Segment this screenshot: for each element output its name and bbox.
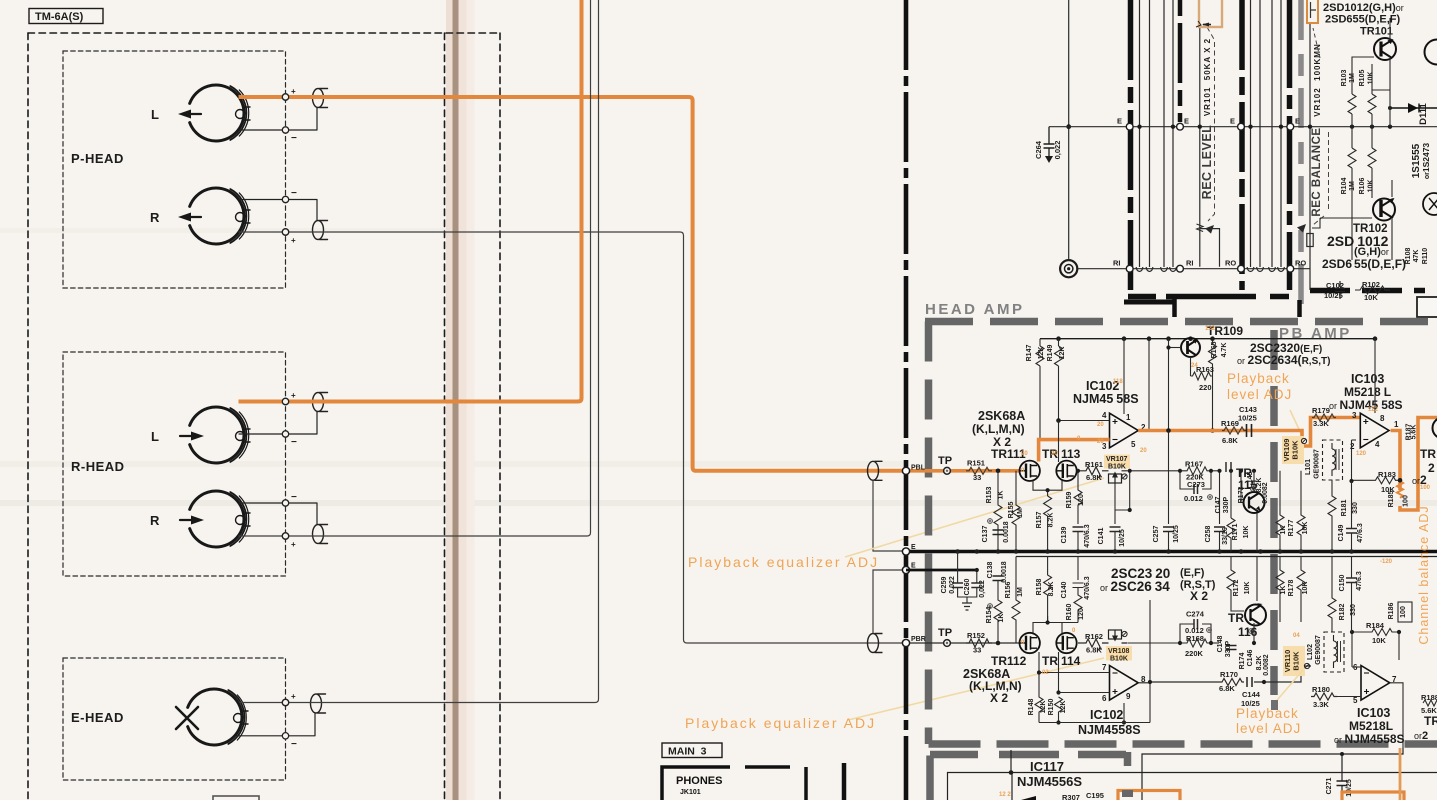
svg-text:R153: R153 [986, 487, 993, 504]
R157 [1044, 496, 1052, 552]
svg-text:R105: R105 [1359, 70, 1366, 87]
lower channel mirror: R172/R178 verticals [1227, 557, 1305, 623]
svg-text:JK101: JK101 [680, 789, 701, 796]
svg-text:R152: R152 [967, 631, 985, 640]
svg-text:10K: 10K [1372, 636, 1386, 645]
svg-text:C149: C149 [1338, 525, 1345, 542]
svg-text:GE90087: GE90087 [1315, 635, 1322, 665]
svg-text:47/6.3: 47/6.3 [1357, 523, 1364, 543]
C137 cap on R153 branch [993, 530, 1004, 535]
MAIN 3 label box [662, 743, 722, 758]
svg-text:TP: TP [938, 627, 952, 639]
svg-text:47/6.3: 47/6.3 [1356, 571, 1363, 591]
arrow L (P-HEAD) [190, 113, 201, 115]
svg-text:TR113: TR113 [1042, 447, 1081, 461]
svg-text:R102: R102 [1362, 280, 1380, 289]
svg-text:PHONES: PHONES [676, 775, 722, 787]
VR107 highlight label [1104, 455, 1130, 469]
svg-text:M5218L: M5218L [1344, 385, 1391, 399]
svg-text:R181: R181 [1341, 500, 1348, 517]
svg-text:1: 1 [1394, 420, 1399, 429]
svg-text:10K: 10K [1302, 522, 1309, 535]
svg-text:12K: 12K [1059, 347, 1066, 360]
svg-text:M5218L: M5218L [1349, 719, 1393, 733]
leader line playback equalizer ADJ upper [845, 478, 1104, 557]
svg-text:118: 118 [1113, 379, 1123, 385]
svg-text:2: 2 [1350, 442, 1355, 451]
svg-text:E: E [1184, 117, 1189, 126]
svg-text:2SD655(D,E,F): 2SD655(D,E,F) [1325, 14, 1401, 26]
svg-text:E: E [1117, 117, 1122, 126]
TM-6A(S) title box [29, 9, 103, 24]
shield ellipse at PBL amp entry [868, 461, 883, 480]
svg-text:R155: R155 [1008, 502, 1015, 519]
svg-text:1M: 1M [1017, 508, 1024, 518]
svg-text:Playback equalizer ADJ: Playback equalizer ADJ [688, 554, 879, 570]
svg-text:100: 100 [1400, 606, 1407, 618]
arrow R (P-HEAD) [190, 216, 201, 218]
R151 resistor [966, 467, 992, 474]
svg-text:L102: L102 [1307, 644, 1314, 660]
svg-text:C137: C137 [982, 526, 989, 543]
svg-text:0.0018: 0.0018 [1003, 521, 1010, 543]
shield tail PBR to E terminal [873, 570, 903, 633]
svg-text:E-HEAD: E-HEAD [71, 710, 124, 725]
bus stub above E terminal x1180 [1178, 0, 1183, 122]
svg-text:120: 120 [1356, 451, 1367, 457]
svg-text:1K: 1K [1280, 526, 1287, 535]
svg-text:VR101 50KA X 2: VR101 50KA X 2 [1203, 38, 1212, 116]
svg-text:100: 100 [1420, 485, 1431, 491]
output ch2 [1138, 682, 1150, 684]
svg-text:12 2: 12 2 [999, 792, 1011, 798]
svg-text:R163: R163 [1196, 365, 1214, 374]
svg-text:R110: R110 [1422, 248, 1429, 264]
svg-text:R171: R171 [1232, 524, 1239, 541]
svg-text:R185: R185 [1388, 491, 1395, 508]
svg-text:3: 3 [1352, 411, 1357, 420]
D111 diode [1390, 103, 1437, 113]
transistor at right edge (partial) [1425, 40, 1437, 65]
svg-text:RO: RO [1295, 259, 1306, 268]
svg-text:122: 122 [1368, 407, 1379, 413]
svg-text:0.0082: 0.0082 [1262, 482, 1269, 504]
transistor TR115 [1244, 492, 1265, 513]
svg-text:R178: R178 [1288, 580, 1295, 597]
svg-text:C271: C271 [1326, 778, 1333, 795]
svg-text:C145: C145 [1247, 472, 1254, 489]
svg-text:X 2: X 2 [990, 691, 1008, 705]
svg-text:B10K: B10K [1110, 656, 1128, 663]
svg-text:33/16: 33/16 [1222, 527, 1229, 545]
svg-text:R307: R307 [1062, 793, 1080, 800]
svg-text:Playback: Playback [1227, 371, 1290, 386]
svg-text:R161: R161 [1085, 460, 1103, 469]
drain lead TR111 up / TR113 up [1058, 421, 1060, 463]
svg-text:RI: RI [1186, 259, 1194, 268]
wire to R168 ch2 [1128, 642, 1180, 644]
svg-text:B10K: B10K [1292, 651, 1301, 671]
node at R153 [996, 469, 1001, 474]
svg-text:12K: 12K [1040, 701, 1047, 714]
section border bottom of REC area [1128, 294, 1289, 300]
svg-text:9: 9 [1126, 692, 1131, 701]
leader line playback equalizer ADJ lower [848, 658, 1104, 720]
head amp bottom border [929, 740, 1437, 748]
svg-text:12K: 12K [1038, 347, 1045, 360]
R155 1M vertical [1012, 471, 1020, 552]
svg-text:1M: 1M [1349, 73, 1356, 83]
connector circle with cross [1423, 193, 1437, 215]
X mark on erase head [176, 707, 198, 729]
white label box top right corner [1417, 297, 1437, 317]
head amp top border (grey dashed) [925, 318, 1437, 326]
svg-text:10K: 10K [1368, 72, 1375, 85]
svg-text:10/25: 10/25 [1238, 414, 1257, 423]
shield ellipse at PBR amp entry [868, 634, 883, 653]
svg-text:5: 5 [1131, 440, 1136, 449]
svg-text:0.022: 0.022 [949, 576, 956, 594]
svg-text:1M: 1M [1017, 587, 1024, 597]
svg-text:33: 33 [973, 646, 981, 655]
svg-text:R183: R183 [1378, 470, 1396, 479]
svg-text:Channel balance ADJ: Channel balance ADJ [1417, 505, 1431, 644]
source leads down joined [1033, 481, 1062, 497]
svg-text:D111: D111 [1418, 102, 1429, 124]
svg-text:R167: R167 [1185, 460, 1203, 469]
svg-text:R177: R177 [1288, 520, 1295, 537]
RI/RO rail [1077, 268, 1310, 270]
svg-text:or NJM4558S: or NJM4558S [1329, 398, 1403, 412]
svg-text:IC103: IC103 [1351, 372, 1384, 386]
svg-text:TR: TR [1424, 714, 1437, 728]
wire ERASE grey: E-head up to top edge [240, 0, 599, 703]
grey bar GB1 [1298, 0, 1304, 318]
PB AMP mid border GB2 [1270, 330, 1278, 695]
svg-text:R104: R104 [1341, 178, 1348, 195]
svg-text:C195: C195 [1086, 791, 1104, 800]
svg-text:4: 4 [1375, 440, 1380, 449]
wire VR107 to R167 [1128, 470, 1180, 472]
head P-R [190, 188, 250, 244]
svg-text:R162: R162 [1085, 632, 1103, 641]
R167 C273 parallel [1180, 467, 1219, 494]
E terminals on bus [902, 548, 909, 555]
VR101 wiper + arrow [1197, 224, 1204, 232]
svg-text:R169: R169 [1221, 419, 1239, 428]
svg-text:or 2SC2634: or 2SC2634 [1100, 579, 1170, 594]
op-amp IC102 A [1110, 413, 1139, 448]
E rail junction dots [1137, 125, 1392, 129]
FET TR114 [1056, 633, 1076, 653]
terminals P-L [282, 94, 288, 100]
fold crease [446, 0, 453, 800]
FET TR112 [1019, 633, 1039, 653]
minus input wire ch2 [1039, 672, 1110, 674]
svg-text:24: 24 [1191, 363, 1198, 369]
plus input wire ch2 [1059, 692, 1110, 694]
svg-text:C147: C147 [1215, 497, 1222, 514]
svg-text:C141: C141 [1098, 528, 1105, 545]
head R-L [190, 407, 250, 463]
svg-text:8.2K: 8.2K [1048, 513, 1055, 528]
orange pin-number annotations [999, 326, 1431, 798]
orange pot box VR101 [1196, 0, 1222, 27]
svg-text:+: + [291, 540, 296, 549]
svg-text:R106: R106 [1359, 178, 1366, 195]
svg-text:NJM4558S: NJM4558S [1078, 723, 1141, 737]
svg-text:C140: C140 [1061, 582, 1068, 599]
svg-text:47K: 47K [1413, 250, 1420, 263]
svg-text:R188: R188 [1421, 693, 1437, 702]
svg-text:330: 330 [1352, 502, 1359, 514]
dashed leader VR102 [1313, 28, 1320, 58]
svg-text:B10K: B10K [1291, 440, 1300, 460]
transistor TR116 [1245, 603, 1266, 625]
R184 10K feedback ch2 [1337, 629, 1403, 749]
supply rail top [1040, 338, 1375, 340]
R147 [1036, 339, 1044, 441]
svg-text:IC103: IC103 [1357, 706, 1390, 720]
svg-text:R: R [150, 513, 160, 528]
svg-text:C273: C273 [1187, 480, 1205, 489]
svg-text:1K: 1K [998, 614, 1005, 623]
shield ellipse E-head [237, 694, 326, 736]
transistor TR101 [1374, 38, 1396, 60]
svg-text:R103: R103 [1341, 70, 1348, 87]
svg-text:L: L [151, 107, 159, 122]
svg-text:VR107: VR107 [1106, 456, 1128, 463]
svg-text:+: + [291, 236, 296, 245]
svg-text:10K: 10K [1302, 582, 1309, 595]
svg-text:TR: TR [1228, 611, 1244, 625]
svg-text:E: E [1295, 117, 1300, 126]
svg-text:L: L [151, 429, 159, 444]
VR109 orange label [1282, 436, 1304, 464]
svg-text:10K: 10K [1243, 526, 1250, 539]
terminal rings over wires [282, 94, 288, 100]
TR112/114 drain rectangle up [1033, 616, 1078, 633]
C141 branch from VR107 [1110, 471, 1130, 552]
svg-text:P-HEAD: P-HEAD [71, 151, 124, 166]
svg-text:R-HEAD: R-HEAD [71, 459, 125, 474]
VR110 orange label [1283, 646, 1305, 676]
VR108 trimmer [1102, 630, 1128, 643]
E terminals row [1117, 117, 1300, 131]
svg-text:PBR: PBR [911, 636, 926, 643]
C259 C260 to ground [952, 552, 982, 611]
svg-text:C148: C148 [1217, 636, 1224, 653]
svg-text:0.0082: 0.0082 [1263, 654, 1270, 676]
svg-text:-120: -120 [1380, 559, 1393, 565]
svg-text:6.8K: 6.8K [1219, 684, 1235, 693]
svg-text:R149: R149 [1047, 345, 1054, 362]
svg-text:R159: R159 [1066, 492, 1073, 509]
svg-text:IC117: IC117 [1030, 759, 1064, 774]
svg-text:TR: TR [1420, 447, 1436, 461]
L102 dashed box w coil [1324, 632, 1344, 672]
svg-text:R170: R170 [1220, 670, 1238, 679]
svg-text:6.8K: 6.8K [1086, 646, 1102, 655]
shield tail PBL to E terminal [873, 481, 903, 552]
head P-L [190, 85, 250, 141]
R103 R105 resistors [1348, 64, 1376, 127]
svg-text:4: 4 [1102, 411, 1107, 420]
ground rail E thick [906, 550, 1437, 553]
svg-text:E: E [911, 563, 916, 570]
svg-text:5.6K: 5.6K [1411, 425, 1418, 440]
feedback R183 [1352, 440, 1402, 484]
svg-text:10K: 10K [1364, 293, 1378, 302]
svg-text:R158: R158 [1036, 579, 1043, 596]
svg-text:R182: R182 [1339, 604, 1346, 621]
bus B3 [1239, 0, 1245, 290]
svg-text:R172: R172 [1233, 580, 1240, 597]
svg-text:−: − [291, 492, 297, 503]
R-HEAD inner dashed box [63, 352, 286, 576]
svg-text:330: 330 [1350, 604, 1357, 616]
wire PBR grey: P-head R to head amp [239, 232, 904, 643]
R149 [1055, 339, 1063, 421]
wire TR102 to rails [1312, 218, 1372, 228]
svg-text:IC102: IC102 [1090, 708, 1123, 722]
C258 R171 branches [1219, 471, 1221, 552]
svg-text:R: R [150, 210, 160, 225]
node [1066, 124, 1071, 129]
svg-text:7: 7 [1102, 663, 1107, 672]
svg-text:HEAD AMP: HEAD AMP [925, 301, 1024, 318]
TR109 emitter to R163 to orange node [1169, 339, 1217, 431]
R161 [1078, 467, 1102, 477]
svg-text:2SD1012(G,H)or: 2SD1012(G,H)or [1323, 2, 1404, 14]
IC103 supply [1374, 339, 1376, 413]
FET TR111 [1019, 461, 1039, 481]
svg-text:R186: R186 [1388, 603, 1395, 620]
bus stub above phones [842, 763, 847, 800]
terminal overlay [282, 94, 288, 706]
second section border below head amp [926, 756, 934, 800]
orange output branches: R169 C143 [1222, 427, 1246, 434]
terminals E-head [282, 699, 288, 705]
svg-text:20: 20 [1097, 422, 1104, 428]
svg-text:C264: C264 [1034, 140, 1043, 159]
circled-plus polarity marks [988, 487, 1256, 634]
R104 R106 resistors [1348, 127, 1376, 260]
transistor TR102 [1373, 198, 1395, 221]
orange pot box VR102a [1307, 0, 1318, 23]
svg-text:4.7K: 4.7K [1221, 343, 1228, 358]
ground rail nodes [955, 549, 1353, 554]
svg-text:TP: TP [938, 455, 952, 467]
svg-text:−: − [291, 437, 297, 448]
orange vertical line bottom right [1399, 748, 1402, 800]
svg-text:2SD655(D,E,F): 2SD655(D,E,F) [1322, 257, 1406, 271]
shield ellipse P-R [239, 200, 328, 240]
VR102 pot element line [1309, 23, 1311, 290]
MAIN label box bottom-left (partial) [213, 796, 259, 800]
svg-text:8.2K: 8.2K [1048, 582, 1055, 597]
TP test point L [944, 467, 951, 474]
svg-text:VR108: VR108 [1108, 648, 1130, 655]
wire PBL orange: P-head L to head amp [239, 97, 904, 471]
arrow + labels bottom center [1021, 796, 1036, 800]
svg-text:R180: R180 [1312, 685, 1330, 694]
svg-text:R157: R157 [1036, 512, 1043, 529]
svg-text:or NJM4558S: or NJM4558S [1334, 732, 1405, 746]
svg-text:R150: R150 [1048, 699, 1055, 716]
svg-text:5: 5 [1353, 696, 1358, 705]
svg-text:(K,L,M,N): (K,L,M,N) [972, 422, 1025, 436]
svg-text:0,022: 0,022 [1053, 141, 1062, 160]
svg-text:1M: 1M [1349, 181, 1356, 191]
svg-text:R160: R160 [1066, 604, 1073, 621]
svg-text:20: 20 [1097, 439, 1104, 445]
RI/RO terminals row [1113, 259, 1306, 273]
svg-text:+: + [291, 391, 296, 400]
R162 [1078, 639, 1102, 649]
svg-text:6.8K: 6.8K [1222, 436, 1238, 445]
svg-text:10K: 10K [1244, 582, 1251, 595]
svg-text:or 2SC2634(R,S,T): or 2SC2634(R,S,T) [1237, 353, 1330, 367]
svg-text:3.3K: 3.3K [1313, 700, 1329, 709]
svg-text:R151: R151 [967, 459, 985, 468]
svg-text:TR114: TR114 [1042, 654, 1081, 668]
terminals R-L [282, 398, 288, 404]
R168 C274 parallel [1180, 619, 1219, 647]
svg-text:10/25: 10/25 [1173, 525, 1180, 543]
svg-text:RI: RI [1113, 259, 1121, 268]
shield ellipse R-R [239, 503, 328, 544]
svg-text:120: 120 [1078, 494, 1085, 506]
R170 C144 on PBR path [1219, 679, 1244, 686]
svg-text:10K: 10K [1368, 180, 1375, 193]
shield ellipse P-L [239, 89, 328, 131]
svg-text:R174: R174 [1239, 653, 1246, 670]
svg-text:E: E [1230, 117, 1235, 126]
svg-text:330P: 330P [1223, 497, 1230, 514]
svg-text:220: 220 [1199, 383, 1212, 392]
svg-text:PB AMP: PB AMP [1279, 325, 1352, 342]
svg-text:+: + [291, 87, 296, 96]
svg-text:6.8K: 6.8K [1086, 473, 1102, 482]
C150 R182 labels [1328, 557, 1357, 633]
head E (erase) [188, 689, 248, 745]
svg-text:or2: or2 [1414, 730, 1428, 742]
svg-text:C259: C259 [941, 577, 948, 594]
svg-text:C257: C257 [1153, 526, 1160, 543]
svg-text:R184: R184 [1366, 621, 1385, 630]
C257 branch [1168, 431, 1170, 525]
E-HEAD inner dashed box [63, 658, 286, 780]
capacitor C264 [1044, 127, 1055, 163]
svg-text:0.0018: 0.0018 [1001, 561, 1008, 583]
bus B4 [1287, 0, 1293, 290]
VR107 trimmer [1102, 471, 1128, 483]
svg-text:20: 20 [1140, 448, 1147, 454]
svg-text:12K: 12K [1060, 701, 1067, 714]
svg-text:R173: R173 [1238, 487, 1245, 504]
FET TR113 [1056, 461, 1076, 481]
svg-text:8: 8 [1380, 414, 1385, 423]
E block short rail [906, 569, 977, 572]
svg-text:R148: R148 [1028, 699, 1035, 716]
svg-text:220K: 220K [1185, 649, 1204, 658]
svg-text:PBL: PBL [911, 465, 926, 472]
svg-text:116: 116 [1238, 625, 1258, 639]
svg-text:8.2K: 8.2K [1256, 656, 1263, 671]
R181 C149 branch [1328, 480, 1357, 552]
svg-text:+: + [291, 692, 296, 701]
